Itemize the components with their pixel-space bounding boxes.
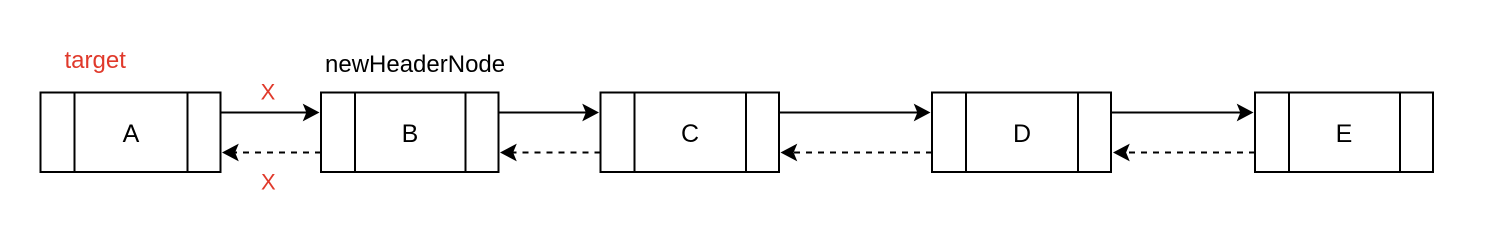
prev arrow E to D	[1113, 144, 1255, 162]
prev arrow B to A	[222, 144, 321, 162]
svg-text:newHeaderNode: newHeaderNode	[325, 51, 505, 78]
svg-text:B: B	[402, 120, 419, 148]
node D	[932, 93, 1111, 173]
svg-text:E: E	[1336, 120, 1353, 148]
prev arrow D to C	[781, 144, 933, 162]
node C	[601, 93, 780, 173]
next arrow C to D	[779, 104, 931, 122]
next arrow D to E	[1111, 104, 1254, 122]
prev arrow C to B	[500, 144, 601, 162]
node E	[1255, 93, 1433, 173]
svg-text:C: C	[681, 120, 699, 148]
next arrow B to C	[499, 104, 600, 122]
node A	[41, 93, 221, 173]
svg-text:A: A	[123, 120, 140, 148]
svg-text:X: X	[261, 80, 276, 105]
svg-text:D: D	[1013, 120, 1031, 148]
next arrow A to B	[221, 104, 320, 122]
svg-text:X: X	[261, 170, 276, 195]
node B	[321, 93, 499, 173]
svg-text:target: target	[65, 47, 127, 74]
